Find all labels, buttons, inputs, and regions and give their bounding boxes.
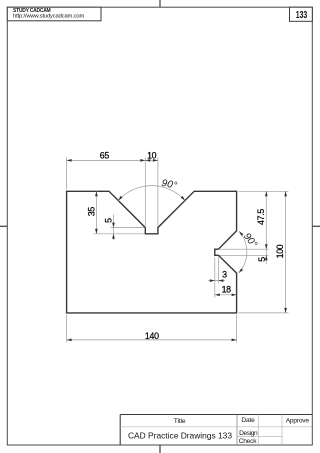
title block column line 3 (281, 415, 283, 446)
svg-text:Title: Title (174, 418, 186, 425)
svg-text:47.5: 47.5 (256, 209, 266, 225)
title block row line 2 (237, 436, 282, 438)
svg-text:Design: Design (239, 430, 258, 437)
angle dimension 90 deg top (117, 178, 186, 202)
centering tick top (159, 0, 161, 7)
svg-text:3: 3 (222, 270, 227, 280)
dimension 65 (67, 150, 146, 189)
dimension 18 (215, 285, 237, 296)
svg-text:CAD Practice Drawings 133: CAD Practice Drawings 133 (128, 431, 232, 441)
centering tick bottom (159, 445, 161, 453)
dimension 5 left (104, 215, 145, 241)
dimension 10 (145, 150, 158, 226)
svg-text:10: 10 (147, 150, 157, 160)
svg-text:140: 140 (145, 331, 159, 341)
svg-text:Date: Date (241, 417, 255, 424)
dimension 35 (87, 191, 145, 234)
dimension 100 (239, 191, 289, 313)
svg-text:18: 18 (222, 285, 232, 295)
page number box (290, 7, 313, 21)
centering tick right (312, 225, 320, 227)
svg-text:100: 100 (275, 244, 285, 258)
title block column line 1 (236, 415, 238, 446)
dimension 47.5 (220, 191, 289, 249)
title block (120, 415, 312, 446)
part outline (67, 191, 237, 313)
svg-text:65: 65 (100, 150, 110, 160)
dimension 3 (208, 257, 227, 297)
dimension 140 (67, 315, 237, 343)
svg-text:Approve: Approve (286, 417, 310, 424)
svg-text:133: 133 (296, 10, 308, 21)
centering tick left (0, 225, 7, 227)
angle dimension 90 deg right (238, 230, 259, 273)
svg-text:Check: Check (239, 438, 258, 445)
svg-text:5: 5 (257, 257, 267, 262)
title block frame top (120, 414, 312, 416)
title block frame left (119, 415, 121, 446)
svg-text:5: 5 (104, 218, 114, 223)
title block row line 1 (120, 426, 312, 428)
header box (7, 7, 101, 21)
dimension 5 right (220, 249, 269, 264)
svg-text:35: 35 (87, 207, 97, 217)
svg-text:http://www.studycadcam.com: http://www.studycadcam.com (13, 14, 84, 20)
title block column line 2 (257, 415, 259, 446)
